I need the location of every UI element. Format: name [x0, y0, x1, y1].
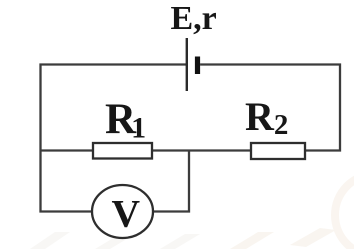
resistor R2: [251, 143, 305, 159]
svg-text:V: V: [112, 192, 141, 236]
watermark faint arc right edge: [335, 174, 354, 249]
wire R1 to node A: [152, 149, 251, 151]
resistor R1: [93, 143, 152, 159]
wire battery negative to left side down to voltmeter: [41, 65, 187, 212]
wire battery positive to right side down to R2: [200, 65, 340, 151]
wire middle row left to R1: [41, 149, 94, 151]
watermark faint bottom band: [30, 232, 200, 249]
voltmeter V: [92, 185, 153, 238]
wire node A down to voltmeter: [153, 151, 189, 212]
svg-text:E,r: E,r: [171, 0, 217, 37]
battery E,r plates: [186, 38, 188, 91]
